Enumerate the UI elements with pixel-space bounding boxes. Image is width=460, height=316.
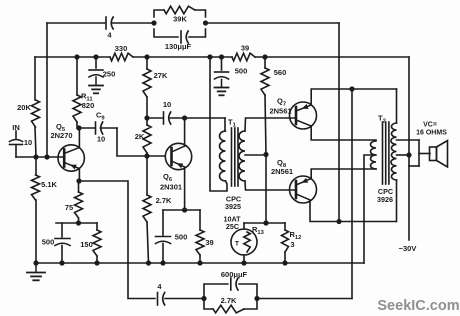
resistor 150 — [80, 223, 101, 263]
node T1 center tap — [263, 152, 268, 157]
wire -30V rail y=57 — [35, 56, 409, 58]
wire vertical x=339 (top rail down to T2) — [338, 23, 340, 221]
ground main — [27, 263, 45, 280]
svg-text:39: 39 — [241, 44, 249, 53]
resistor 20K — [17, 100, 39, 127]
wire T1 center tap — [245, 154, 266, 156]
node B feedback box right — [203, 20, 208, 25]
wire R13 top — [244, 223, 285, 229]
svg-text:20K: 20K — [17, 103, 31, 112]
resistor R11 820 — [73, 92, 94, 123]
svg-text:27K: 27K — [154, 71, 168, 80]
node Q6 emitter junction — [182, 207, 187, 212]
resistor 39 (bias) — [232, 44, 255, 61]
svg-text:330: 330 — [115, 44, 128, 53]
wire T2 primary tap — [364, 155, 376, 263]
svg-text:3: 3 — [290, 240, 294, 249]
wire emitter feedback to bottom — [79, 181, 155, 299]
capacitor 500 (Q6) — [156, 210, 188, 263]
wire T1 primary bottom return — [210, 57, 227, 191]
wire T2 tap to speaker top — [397, 139, 420, 141]
wire vertical x=47 (feedback to Q5 base) — [46, 23, 48, 157]
wire T1 primary top — [224, 118, 226, 131]
capacitor 10 interstage — [163, 100, 171, 124]
node 560 top — [262, 54, 267, 59]
wire bottom to box — [165, 298, 204, 300]
svg-text:10: 10 — [97, 135, 105, 144]
svg-text:16 OHMS: 16 OHMS — [416, 130, 447, 137]
svg-text:2N561: 2N561 — [271, 167, 293, 176]
resistor 39K — [164, 6, 195, 23]
node box left — [201, 296, 206, 301]
svg-text:820: 820 — [82, 101, 95, 110]
wire ground rail — [36, 262, 364, 264]
wire bypass junction — [56, 222, 97, 224]
wire Q8 emitter — [311, 169, 376, 179]
resistor 5.1K — [32, 157, 58, 263]
wire Q6 collector — [184, 118, 186, 146]
wire bias to R13 — [265, 155, 267, 224]
wire 2.7K box outline — [204, 284, 257, 309]
label IN — [12, 123, 20, 132]
resistor 2.7K bottom — [213, 296, 244, 313]
capacitor 600uuF — [221, 270, 248, 290]
node feedback/base — [44, 154, 49, 159]
capacitor 250 to ground — [89, 57, 115, 79]
wire top rail right segment — [206, 22, 340, 24]
svg-text:250: 250 — [103, 70, 116, 79]
node 2.7K bottom — [146, 260, 151, 265]
resistor 560 — [261, 57, 286, 155]
node 75 bottom — [76, 220, 81, 225]
capacitor 500 bypass — [42, 223, 70, 263]
capacitor C9 10 — [96, 111, 106, 144]
capacitor 130uuF — [165, 31, 192, 51]
wire box to feedback vertical — [257, 298, 352, 300]
transistor Q5 2N270 — [50, 122, 84, 171]
svg-text:4: 4 — [107, 31, 112, 40]
transformer T2 primary winding — [371, 141, 376, 169]
wire Q6 emitter — [184, 168, 186, 211]
wire 39K box outline — [154, 10, 206, 37]
node 500 bypass bottom — [59, 260, 64, 265]
wire Q5 emitter — [78, 170, 80, 182]
capacitor 4 (top feedback) — [106, 17, 113, 40]
transistor Q6 2N301 — [160, 143, 192, 191]
wire Q5 base — [16, 156, 64, 158]
wire top feedback rail y=23 — [47, 22, 154, 24]
svg-text:600μμF: 600μμF — [221, 270, 248, 279]
node 27K top — [144, 54, 149, 59]
wire T2 secondary bottom — [396, 180, 398, 222]
label CPC 3925 — [225, 195, 241, 212]
node Q6 collector — [182, 115, 187, 120]
node 500 Q6 bottom — [160, 260, 165, 265]
ground 500 rail — [215, 80, 229, 96]
svg-text:5.1K: 5.1K — [41, 180, 57, 189]
wire y=118 interstage — [147, 117, 225, 119]
transistor Q7 2N561 — [269, 97, 316, 130]
transistor Q8 2N561 — [271, 158, 317, 203]
resistor 2.7K (Q6 base) — [143, 156, 172, 263]
svg-text:130μμF: 130μμF — [165, 42, 192, 51]
label T2 — [378, 114, 386, 125]
label CPC 3926 — [377, 187, 393, 204]
label VC= — [423, 122, 437, 129]
svg-text:560: 560 — [274, 68, 287, 77]
wire emitter bypass — [163, 209, 200, 211]
label -30V — [399, 244, 417, 253]
capacitor 4 bottom — [157, 282, 164, 305]
svg-text:VC=: VC= — [423, 122, 437, 129]
svg-text:3926: 3926 — [377, 195, 393, 204]
node T1 primary return — [207, 54, 212, 59]
wire Q7 collector — [311, 126, 376, 140]
wire T2 tap -30V — [397, 154, 410, 156]
svg-text:2N301: 2N301 — [160, 183, 182, 192]
capacitor 10 input — [10, 131, 33, 157]
node A feedback box left — [151, 20, 156, 25]
wire Q8 collector — [310, 201, 396, 222]
node 20K/base — [33, 154, 38, 159]
resistor 330 — [110, 44, 133, 61]
wire R11 branch — [76, 57, 78, 128]
label SeekIC.com — [377, 298, 459, 314]
thermistor R13 — [231, 225, 265, 255]
label T1 — [228, 118, 237, 129]
node -30V tap — [406, 152, 411, 157]
node box right — [254, 296, 259, 301]
wire feedback vertical — [351, 89, 353, 299]
node 27K bottom — [144, 115, 149, 120]
node Q5 collector — [76, 125, 81, 130]
node R11 top — [74, 54, 79, 59]
wire 20K branch — [35, 57, 36, 157]
svg-text:4: 4 — [157, 282, 162, 291]
svg-text:3925: 3925 — [225, 202, 241, 211]
svg-text:25C: 25C — [226, 222, 239, 231]
label 16 OHMS — [416, 130, 447, 137]
svg-text:2N270: 2N270 — [50, 131, 72, 140]
node 150 bottom — [94, 260, 99, 265]
svg-text:500: 500 — [235, 67, 248, 76]
wire speaker bracket — [409, 140, 430, 166]
svg-text:C9: C9 — [96, 111, 105, 122]
svg-text:2N561: 2N561 — [269, 107, 291, 116]
node emitter rail feedback — [349, 86, 354, 91]
resistor R12 3 — [282, 223, 302, 263]
svg-text:150: 150 — [80, 240, 93, 249]
node R13 bottom — [241, 260, 246, 265]
label 10AT 25C — [223, 215, 241, 232]
svg-text:39: 39 — [205, 238, 213, 247]
svg-text:Q6: Q6 — [163, 172, 173, 183]
speaker VC 16 ohms — [430, 141, 448, 168]
resistor 39 (Q6) — [196, 210, 214, 263]
transformer T2 secondary winding — [391, 123, 397, 180]
svg-text:−30V: −30V — [399, 244, 417, 253]
node Q5 emitter — [76, 178, 81, 183]
node 39 bottom — [197, 260, 202, 265]
svg-text:10: 10 — [163, 100, 171, 109]
wire T2 secondary top — [396, 89, 398, 123]
svg-text:500: 500 — [42, 238, 55, 247]
node R12 bottom — [282, 260, 287, 265]
wire T1 secondary bottom to Q8 base — [245, 181, 296, 190]
svg-text:T1: T1 — [228, 118, 237, 129]
node bias R13 junction — [263, 220, 268, 225]
wire C9 link — [81, 128, 164, 156]
svg-text:2K: 2K — [135, 132, 145, 141]
svg-text:500: 500 — [175, 233, 188, 242]
wire R13 bottom — [243, 255, 245, 263]
svg-text:2.7K: 2.7K — [156, 196, 172, 205]
svg-text:T: T — [235, 241, 240, 248]
transformer T1 primary winding — [220, 131, 226, 181]
wire Q7 emitter rail — [311, 89, 396, 105]
ground 250 — [89, 77, 103, 93]
svg-text:75: 75 — [65, 203, 73, 212]
wire T1 secondary top to Q7 base — [245, 118, 296, 131]
node collector/T2 junction — [336, 219, 341, 224]
transformer T1 secondary winding — [239, 131, 245, 181]
wire Q5 collector — [78, 128, 80, 148]
node 2K bottom — [144, 153, 149, 158]
svg-text:39K: 39K — [173, 15, 187, 24]
node gnd main — [33, 260, 38, 265]
wire rail corner to -30V — [408, 57, 410, 240]
svg-text:SeekIC.com: SeekIC.com — [377, 298, 459, 314]
resistor 2K — [135, 118, 151, 156]
transformer T2 core — [383, 122, 389, 184]
resistor 75 — [65, 181, 83, 223]
svg-text:2.7K: 2.7K — [221, 296, 237, 305]
svg-text:10: 10 — [24, 138, 32, 147]
resistor 27K — [143, 57, 168, 118]
node 250 cap top — [93, 54, 98, 59]
capacitor 500 (rail) to ground — [215, 57, 248, 79]
transformer T1 core — [232, 128, 239, 186]
node 500 cap top — [219, 54, 224, 59]
